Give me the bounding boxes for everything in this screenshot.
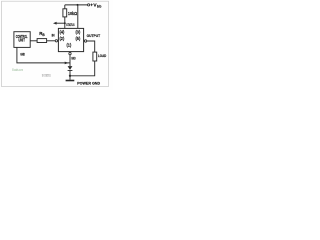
svg-text:(3): (3) <box>76 30 81 36</box>
wire status stub left <box>56 22 65 24</box>
ground power gnd <box>66 80 75 82</box>
wire control unit to RB <box>30 40 37 42</box>
svg-text:STATUS: STATUS <box>66 22 74 27</box>
terminal OUTPUT <box>84 40 86 42</box>
terminal IN <box>55 40 57 42</box>
wire rail to pin 3 <box>77 5 79 29</box>
border frame <box>2 1 109 86</box>
svg-text:Elcodis.com: Elcodis.com <box>12 68 23 72</box>
svg-text:GND: GND <box>71 56 75 61</box>
svg-text:(5): (5) <box>76 36 81 42</box>
wire RB to IN terminal <box>47 40 56 42</box>
arrow status pointing left <box>53 22 57 25</box>
wire diode to ground <box>69 71 71 80</box>
supply rail +Vbb wire <box>65 4 88 6</box>
wire OUTPUT to load <box>87 41 95 52</box>
svg-text:OUTPUT: OUTPUT <box>87 33 101 38</box>
svg-text:IN: IN <box>52 34 55 38</box>
node power gnd junction <box>69 75 71 77</box>
resistor pull-up 10k <box>63 9 67 17</box>
wire load to power gnd node <box>70 61 95 76</box>
svg-text:(4): (4) <box>60 30 65 36</box>
svg-text:POWER GND: POWER GND <box>77 81 100 86</box>
wire GND terminal down <box>69 55 71 66</box>
load resistor <box>93 52 97 61</box>
arrow on gnd wire pointing right <box>65 62 69 65</box>
resistor RB <box>37 39 47 43</box>
node junction on rail <box>77 4 79 6</box>
svg-text:UNIT: UNIT <box>18 38 25 43</box>
wire pin 5 to OUTPUT terminal <box>83 40 86 42</box>
diode D1 <box>68 66 73 70</box>
terminal +Vbb <box>88 4 90 6</box>
wire pin 1 to GND terminal <box>69 51 71 54</box>
svg-text:LOAD: LOAD <box>98 53 106 58</box>
svg-text:+Vbb: +Vbb <box>90 3 101 9</box>
svg-text:10kΩ: 10kΩ <box>68 11 78 16</box>
wire IN terminal to pin 2 <box>57 40 60 42</box>
svg-text:SC08651: SC08651 <box>42 73 51 77</box>
svg-text:(2): (2) <box>60 36 65 42</box>
IC U1 box <box>58 28 83 51</box>
wire rail to resistor top <box>64 5 66 9</box>
svg-text:RB: RB <box>39 31 45 37</box>
wire resistor to status node <box>64 17 66 29</box>
node STATUS junction <box>64 22 66 24</box>
svg-text:GND: GND <box>20 51 25 56</box>
terminal GND <box>69 52 71 54</box>
wire control unit gnd down and right <box>17 47 70 63</box>
svg-text:(1): (1) <box>67 42 72 48</box>
control unit box <box>14 32 30 48</box>
